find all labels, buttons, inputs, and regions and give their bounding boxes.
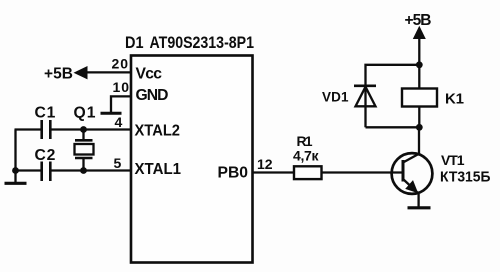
emitter arrowhead [405, 180, 418, 193]
wire top to VD1 branch [366, 65, 420, 86]
svg-text:+5B: +5B [405, 12, 432, 29]
svg-text:VD1: VD1 [322, 90, 349, 105]
ground (emitter) [408, 206, 431, 209]
diode VD1 cathode bar [354, 85, 376, 88]
node junction top (K1/VD1) [416, 61, 423, 68]
crystal Q1 [82, 130, 84, 141]
svg-text:K1: K1 [445, 91, 464, 108]
node junction XTAL2/Q1 [80, 126, 87, 133]
svg-text:GND: GND [136, 87, 169, 104]
wire +5B down to node [418, 38, 420, 65]
wire XTAL1 left of C2 [15, 169, 42, 171]
wire through relay column [418, 65, 420, 128]
svg-text:10: 10 [113, 79, 130, 95]
transistor VT1 circle [392, 153, 433, 194]
node junction bottom (K1/VD1/collector) [416, 124, 423, 131]
svg-text:4,7к: 4,7к [293, 148, 319, 164]
svg-text:Q1: Q1 [74, 104, 96, 121]
wire collector up to relay [418, 128, 420, 155]
svg-text:+5B: +5B [44, 65, 73, 82]
node junction left [12, 167, 19, 174]
svg-text:12: 12 [257, 156, 273, 172]
svg-text:20: 20 [112, 56, 129, 72]
transistor collector lead [403, 154, 419, 163]
svg-text:Vcc: Vcc [136, 66, 163, 83]
wire R1 to base [322, 171, 404, 173]
wire XTAL2 left of C1 [15, 128, 42, 130]
svg-text:XTAL2: XTAL2 [135, 123, 181, 140]
transistor emitter lead [403, 179, 419, 194]
capacitor C2 [40, 162, 43, 182]
svg-text:КТ315Б: КТ315Б [440, 170, 491, 186]
svg-text:4: 4 [115, 114, 123, 130]
wire left vertical joining C1/C2 [14, 130, 16, 171]
wire VD1 anode down [364, 86, 366, 127]
relay K1 coil [402, 89, 437, 107]
+5B arrow (right, up) [413, 26, 426, 39]
wire VD1 bottom to node [366, 126, 420, 128]
svg-text:XTAL1: XTAL1 [135, 161, 182, 178]
wire emitter down [417, 194, 419, 207]
svg-text:PB0: PB0 [218, 165, 249, 182]
capacitor C1 [40, 120, 43, 139]
resistor R1 [294, 166, 322, 179]
wire PB0 (pin12) to R1 [253, 171, 295, 173]
wire XTAL1 (pin5) right of C2 [51, 169, 132, 171]
ground bar (pin10) [101, 112, 122, 115]
transistor base bar [402, 160, 405, 182]
IC D1 AT90S2313-8P1 body [131, 56, 253, 263]
svg-text:AT90S2313-8P1: AT90S2313-8P1 [150, 33, 255, 52]
wire XTAL2 (pin4) right of C1 [51, 128, 132, 130]
node junction XTAL1/Q1 [80, 167, 87, 174]
+5B arrow (left, feeds Vcc) [74, 66, 88, 79]
svg-text:VT1: VT1 [441, 152, 465, 168]
ground (left, crystal net) [14, 171, 16, 183]
wire pin20 Vcc [85, 71, 131, 73]
diode VD1 triangle [356, 87, 376, 107]
svg-text:D1: D1 [125, 33, 144, 52]
svg-text:5: 5 [114, 155, 122, 171]
wire pin10 GND [111, 96, 131, 112]
svg-text:C2: C2 [35, 147, 56, 164]
svg-text:C1: C1 [35, 104, 56, 121]
